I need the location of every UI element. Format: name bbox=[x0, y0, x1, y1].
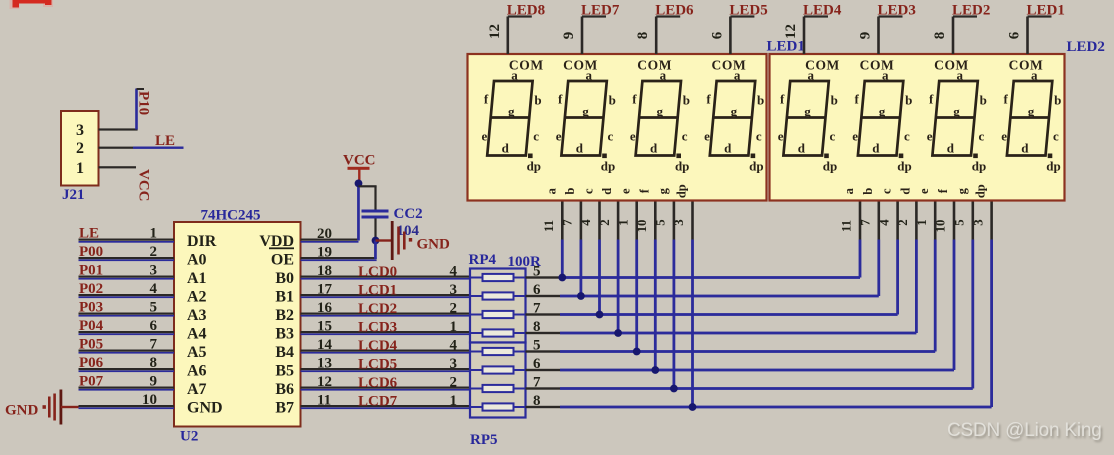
svg-text:P05: P05 bbox=[79, 337, 103, 353]
svg-text:P06: P06 bbox=[79, 355, 104, 371]
svg-text:g: g bbox=[879, 104, 886, 119]
svg-text:f: f bbox=[632, 92, 637, 107]
svg-text:b: b bbox=[563, 188, 577, 195]
svg-text:g: g bbox=[1028, 104, 1035, 119]
svg-text:d: d bbox=[600, 188, 614, 195]
svg-text:COM: COM bbox=[712, 58, 747, 73]
svg-text:4: 4 bbox=[877, 219, 891, 226]
svg-text:B3: B3 bbox=[275, 326, 294, 343]
svg-text:dp: dp bbox=[749, 159, 763, 174]
svg-text:3: 3 bbox=[971, 219, 985, 225]
svg-text:a: a bbox=[956, 68, 963, 83]
svg-text:dp: dp bbox=[601, 159, 615, 174]
svg-text:7: 7 bbox=[561, 219, 575, 226]
svg-text:dp: dp bbox=[823, 159, 837, 174]
svg-text:d: d bbox=[724, 141, 732, 156]
svg-text:c: c bbox=[608, 129, 614, 144]
svg-text:LED1: LED1 bbox=[1027, 3, 1065, 19]
svg-text:LCD1: LCD1 bbox=[358, 283, 397, 299]
svg-text:c: c bbox=[1053, 129, 1059, 144]
svg-text:GND: GND bbox=[5, 403, 39, 419]
svg-text:6: 6 bbox=[709, 31, 725, 39]
svg-text:3: 3 bbox=[150, 263, 158, 279]
svg-text:LED7: LED7 bbox=[581, 3, 620, 19]
svg-text:VCC: VCC bbox=[136, 169, 152, 202]
svg-text:a: a bbox=[807, 68, 814, 83]
svg-text:4: 4 bbox=[579, 219, 593, 226]
svg-text:1: 1 bbox=[915, 219, 929, 225]
svg-text:P02: P02 bbox=[79, 281, 103, 297]
svg-text:4: 4 bbox=[150, 281, 158, 297]
svg-text:b: b bbox=[683, 93, 690, 108]
svg-text:e: e bbox=[1001, 129, 1007, 144]
svg-text:f: f bbox=[706, 92, 711, 107]
svg-text:g: g bbox=[656, 104, 663, 119]
svg-text:11: 11 bbox=[542, 220, 556, 232]
svg-text:e: e bbox=[630, 129, 636, 144]
svg-text:GND: GND bbox=[187, 400, 223, 417]
svg-text:a: a bbox=[1031, 68, 1038, 83]
svg-text:1: 1 bbox=[450, 319, 458, 335]
svg-text:g: g bbox=[955, 187, 969, 194]
svg-text:OE: OE bbox=[271, 252, 294, 269]
svg-text:dp: dp bbox=[675, 184, 689, 198]
svg-text:LED1: LED1 bbox=[767, 39, 805, 55]
svg-text:d: d bbox=[898, 188, 912, 195]
svg-text:A3: A3 bbox=[187, 307, 207, 324]
svg-text:4: 4 bbox=[450, 264, 458, 280]
svg-text:COM: COM bbox=[637, 58, 672, 73]
svg-text:g: g bbox=[731, 104, 738, 119]
svg-text:g: g bbox=[804, 104, 811, 119]
svg-text:LCD4: LCD4 bbox=[358, 338, 398, 354]
svg-text:COM: COM bbox=[563, 58, 598, 73]
svg-text:g: g bbox=[508, 104, 515, 119]
svg-text:5: 5 bbox=[953, 219, 967, 225]
svg-text:LE: LE bbox=[155, 133, 175, 149]
svg-text:e: e bbox=[482, 129, 488, 144]
svg-text:COM: COM bbox=[1009, 58, 1044, 73]
svg-text:B2: B2 bbox=[275, 307, 294, 324]
svg-text:f: f bbox=[780, 92, 785, 107]
svg-text:LED6: LED6 bbox=[655, 3, 694, 19]
svg-text:LED5: LED5 bbox=[729, 3, 767, 19]
svg-text:LED2: LED2 bbox=[1067, 39, 1105, 55]
svg-text:P03: P03 bbox=[79, 300, 103, 316]
svg-text:b: b bbox=[831, 93, 838, 108]
svg-text:A5: A5 bbox=[187, 344, 207, 361]
svg-text:c: c bbox=[880, 188, 894, 194]
svg-text:f: f bbox=[484, 92, 489, 107]
svg-text:B5: B5 bbox=[275, 363, 294, 380]
svg-text:B7: B7 bbox=[275, 400, 294, 417]
svg-text:c: c bbox=[904, 129, 910, 144]
svg-text:P04: P04 bbox=[79, 318, 104, 334]
svg-text:CSDN @Lion King: CSDN @Lion King bbox=[947, 420, 1102, 441]
svg-text:A6: A6 bbox=[187, 363, 207, 380]
svg-text:2: 2 bbox=[76, 140, 84, 157]
svg-text:e: e bbox=[917, 188, 931, 194]
svg-text:b: b bbox=[861, 188, 875, 195]
svg-text:7: 7 bbox=[859, 219, 873, 226]
svg-text:g: g bbox=[582, 104, 589, 119]
svg-text:2: 2 bbox=[896, 219, 910, 225]
svg-text:a: a bbox=[842, 187, 856, 194]
svg-text:P07: P07 bbox=[79, 374, 104, 390]
svg-text:d: d bbox=[947, 141, 955, 156]
svg-text:e: e bbox=[619, 188, 633, 194]
svg-text:5: 5 bbox=[150, 300, 158, 316]
svg-text:A0: A0 bbox=[187, 252, 207, 269]
svg-text:a: a bbox=[660, 68, 667, 83]
svg-text:COM: COM bbox=[934, 58, 969, 73]
svg-text:10: 10 bbox=[635, 220, 649, 233]
svg-text:GND: GND bbox=[417, 237, 451, 253]
svg-text:4: 4 bbox=[450, 338, 458, 354]
svg-text:CC2: CC2 bbox=[394, 206, 423, 222]
svg-text:d: d bbox=[650, 141, 658, 156]
svg-text:LCD2: LCD2 bbox=[358, 301, 397, 317]
svg-text:e: e bbox=[556, 129, 562, 144]
svg-text:a: a bbox=[511, 68, 518, 83]
svg-text:A7: A7 bbox=[187, 381, 207, 398]
svg-text:1: 1 bbox=[76, 160, 84, 177]
svg-text:6: 6 bbox=[150, 318, 158, 334]
svg-text:2: 2 bbox=[450, 375, 458, 391]
svg-text:J21: J21 bbox=[62, 187, 85, 203]
svg-text:a: a bbox=[585, 68, 592, 83]
svg-text:dp: dp bbox=[675, 159, 689, 174]
svg-text:b: b bbox=[1054, 93, 1061, 108]
svg-text:d: d bbox=[798, 141, 806, 156]
svg-text:8: 8 bbox=[635, 32, 651, 40]
svg-text:b: b bbox=[609, 93, 616, 108]
svg-text:c: c bbox=[830, 129, 836, 144]
svg-text:e: e bbox=[704, 129, 710, 144]
svg-text:9: 9 bbox=[858, 32, 874, 40]
svg-text:d: d bbox=[502, 141, 510, 156]
svg-text:e: e bbox=[852, 129, 858, 144]
svg-text:11: 11 bbox=[840, 220, 854, 232]
svg-text:LCD6: LCD6 bbox=[358, 375, 398, 391]
svg-text:dp: dp bbox=[972, 159, 986, 174]
svg-text:c: c bbox=[582, 188, 596, 194]
svg-text:9: 9 bbox=[561, 32, 577, 40]
svg-text:c: c bbox=[979, 129, 985, 144]
svg-text:LCD7: LCD7 bbox=[358, 394, 398, 410]
svg-text:B0: B0 bbox=[275, 270, 294, 287]
svg-text:A4: A4 bbox=[187, 326, 207, 343]
svg-text:d: d bbox=[576, 141, 584, 156]
svg-text:3: 3 bbox=[76, 122, 84, 139]
svg-text:c: c bbox=[756, 129, 762, 144]
svg-text:A2: A2 bbox=[187, 289, 207, 306]
svg-text:B1: B1 bbox=[275, 289, 294, 306]
svg-text:U2: U2 bbox=[180, 429, 198, 445]
svg-text:RP4: RP4 bbox=[469, 252, 497, 268]
svg-text:10: 10 bbox=[934, 220, 948, 233]
svg-text:A1: A1 bbox=[187, 270, 207, 287]
svg-text:f: f bbox=[929, 92, 934, 107]
svg-text:12: 12 bbox=[487, 24, 503, 39]
svg-text:7: 7 bbox=[150, 337, 158, 353]
svg-text:LED8: LED8 bbox=[507, 3, 545, 19]
svg-text:LCD3: LCD3 bbox=[358, 320, 397, 336]
svg-text:B6: B6 bbox=[275, 381, 294, 398]
svg-text:LCD5: LCD5 bbox=[358, 357, 397, 373]
svg-text:1: 1 bbox=[616, 219, 630, 225]
svg-text:9: 9 bbox=[150, 374, 158, 390]
svg-text:COM: COM bbox=[860, 58, 895, 73]
svg-text:d: d bbox=[872, 141, 880, 156]
svg-text:LED4: LED4 bbox=[803, 3, 842, 19]
svg-text:a: a bbox=[882, 68, 889, 83]
svg-text:12: 12 bbox=[783, 24, 799, 39]
svg-text:dp: dp bbox=[1046, 159, 1060, 174]
svg-text:b: b bbox=[534, 93, 541, 108]
svg-text:f: f bbox=[1004, 92, 1009, 107]
svg-text:c: c bbox=[682, 129, 688, 144]
svg-text:b: b bbox=[905, 93, 912, 108]
svg-text:LE: LE bbox=[79, 226, 99, 242]
svg-text:P10: P10 bbox=[136, 91, 152, 115]
svg-text:P01: P01 bbox=[79, 263, 103, 279]
svg-text:e: e bbox=[778, 129, 784, 144]
svg-text:f: f bbox=[855, 92, 860, 107]
svg-text:3: 3 bbox=[450, 356, 458, 372]
svg-text:a: a bbox=[544, 187, 558, 194]
svg-text:e: e bbox=[927, 129, 933, 144]
svg-text:1: 1 bbox=[450, 393, 458, 409]
svg-text:2: 2 bbox=[598, 219, 612, 225]
svg-text:3: 3 bbox=[672, 219, 686, 225]
svg-text:LED2: LED2 bbox=[952, 3, 990, 19]
svg-text:DIR: DIR bbox=[187, 233, 217, 250]
svg-text:a: a bbox=[734, 68, 741, 83]
svg-text:RP5: RP5 bbox=[470, 432, 498, 448]
svg-text:dp: dp bbox=[974, 184, 988, 198]
svg-text:LCD0: LCD0 bbox=[358, 264, 397, 280]
svg-text:2: 2 bbox=[450, 301, 458, 317]
svg-text:2: 2 bbox=[150, 244, 158, 260]
svg-text:g: g bbox=[953, 104, 960, 119]
svg-text:8: 8 bbox=[150, 355, 158, 371]
svg-text:c: c bbox=[533, 129, 539, 144]
svg-text:b: b bbox=[757, 93, 764, 108]
svg-text:P00: P00 bbox=[79, 244, 103, 260]
svg-text:LED3: LED3 bbox=[878, 3, 916, 19]
svg-text:f: f bbox=[558, 92, 563, 107]
svg-text:d: d bbox=[1021, 141, 1029, 156]
svg-text:100R: 100R bbox=[508, 254, 542, 270]
svg-text:b: b bbox=[980, 93, 987, 108]
svg-text:B4: B4 bbox=[275, 344, 294, 361]
svg-text:dp: dp bbox=[527, 159, 541, 174]
svg-text:g: g bbox=[656, 187, 670, 194]
svg-text:6: 6 bbox=[1007, 31, 1023, 39]
svg-text:8: 8 bbox=[932, 32, 948, 40]
svg-text:5: 5 bbox=[654, 219, 668, 225]
svg-text:dp: dp bbox=[897, 159, 911, 174]
svg-text:VCC: VCC bbox=[343, 153, 376, 169]
svg-text:1: 1 bbox=[150, 226, 158, 242]
svg-text:3: 3 bbox=[450, 282, 458, 298]
